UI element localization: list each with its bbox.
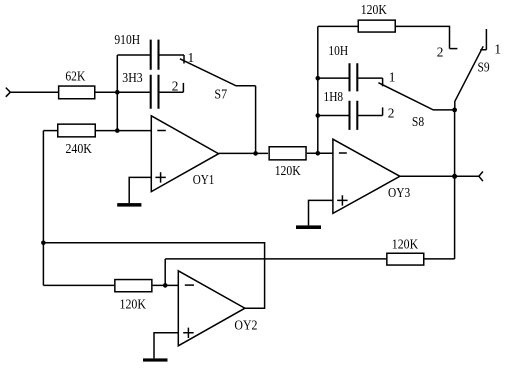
resistor 120K (top feedback) — [358, 2, 395, 32]
S7 pin label 2 — [172, 79, 179, 94]
switch S9 — [455, 46, 490, 110]
S8 pin label 1 — [389, 70, 396, 85]
wire OY3 non-inverting input to ground — [309, 200, 333, 225]
junction 1H8 tap — [316, 113, 321, 118]
ground OY3 — [296, 225, 321, 229]
S7 pin label 1 — [188, 50, 195, 65]
wire OY1 output — [219, 152, 268, 154]
junction OY3 output — [452, 174, 457, 179]
junction OY1 output — [253, 151, 258, 156]
wire 240K to bottom network vertical — [42, 131, 44, 286]
wire OY2 node to 120K bottom right — [165, 258, 386, 260]
resistor 120K (OY2 input) — [115, 280, 152, 312]
wire OY3 output — [400, 175, 479, 177]
wire node A vertical — [116, 55, 118, 131]
svg-text:S7: S7 — [214, 87, 227, 102]
svg-text:120K: 120K — [361, 2, 387, 17]
junction 240K / node A — [115, 128, 120, 133]
svg-text:62K: 62K — [65, 69, 85, 84]
resistor 120K (OY1 to OY3) — [269, 147, 306, 178]
svg-text:2: 2 — [437, 45, 444, 60]
capacitor 1H8 — [318, 89, 383, 130]
wire 240K left lead — [43, 130, 57, 132]
wire OY2 non-inverting input to ground — [154, 333, 178, 359]
S8 contact 2 tick — [382, 107, 384, 115]
junction OY2 inverting node — [163, 283, 168, 288]
S8 pin label 2 — [388, 105, 395, 120]
ground OY1 — [117, 203, 141, 207]
svg-text:OY1: OY1 — [193, 172, 215, 187]
wire S7 pole to OY1 output — [255, 86, 257, 154]
svg-text:240K: 240K — [66, 141, 93, 156]
svg-text:S9: S9 — [478, 60, 491, 75]
wire OY2 output feedback — [43, 243, 264, 308]
svg-text:3H3: 3H3 — [122, 70, 143, 85]
svg-text:OY3: OY3 — [388, 185, 410, 200]
junction feedback node — [41, 241, 46, 246]
wire 62K to node A — [96, 91, 150, 93]
op-amp OY2 — [178, 271, 257, 346]
S9 pin label 2 — [437, 45, 444, 60]
capacitor 910H — [114, 32, 184, 70]
svg-text:OY2: OY2 — [234, 317, 257, 332]
junction OY3 inverting node — [316, 151, 321, 156]
S7 contact 1 tick — [183, 55, 185, 64]
resistor 240K — [58, 124, 96, 156]
S7 contact 2 tick — [182, 83, 184, 92]
wire 120K bottom right to feedback — [425, 258, 455, 260]
wire OY1 non-inverting input to ground — [129, 177, 151, 203]
svg-text:S8: S8 — [412, 114, 425, 129]
S9 contact 2 tick — [450, 48, 458, 50]
switch S7 — [180, 59, 256, 102]
output terminal — [479, 172, 483, 182]
capacitor 3H3 — [122, 70, 183, 109]
junction 10H tap — [316, 76, 321, 81]
wire 240K to OY1 inverting input — [96, 130, 151, 132]
svg-text:120K: 120K — [120, 297, 147, 312]
svg-text:1: 1 — [494, 42, 501, 57]
svg-text:120K: 120K — [275, 163, 301, 178]
wire bottom to 120K left — [43, 284, 114, 286]
wire pole to feedback bottom — [454, 110, 456, 259]
wire input to 62K — [10, 91, 58, 93]
capacitor 10H — [318, 43, 383, 91]
S9 contact 1 — [480, 29, 486, 50]
resistor 120K (bottom right) — [387, 237, 424, 265]
S8 contact 1 tick — [382, 78, 384, 86]
resistor 62K — [59, 69, 95, 99]
input terminal — [6, 88, 11, 97]
switch S8 — [378, 83, 454, 129]
svg-text:1H8: 1H8 — [324, 89, 344, 104]
wire 120K to OY2 inverting input — [153, 284, 179, 286]
junction S8/S9 pole — [452, 108, 457, 113]
svg-text:120K: 120K — [392, 237, 419, 252]
wire 120K top to S9 contact 2 — [396, 26, 450, 48]
svg-text:10H: 10H — [328, 43, 348, 58]
op-amp OY1 — [151, 116, 218, 192]
op-amp OY3 — [333, 139, 411, 213]
svg-text:2: 2 — [172, 79, 179, 94]
S9 pin label 1 — [494, 42, 501, 57]
node A junction — [115, 90, 120, 95]
svg-text:2: 2 — [388, 105, 395, 120]
svg-text:1: 1 — [389, 70, 396, 85]
wire OY3 summing vertical — [317, 26, 319, 153]
wire to 910H — [117, 54, 150, 56]
wire to 120K top — [318, 25, 358, 27]
wire 120K to OY3 inverting input — [307, 152, 333, 154]
ground OY2 — [143, 358, 168, 361]
wire OY2 inverting vertical — [164, 259, 166, 286]
svg-text:910H: 910H — [114, 32, 140, 47]
